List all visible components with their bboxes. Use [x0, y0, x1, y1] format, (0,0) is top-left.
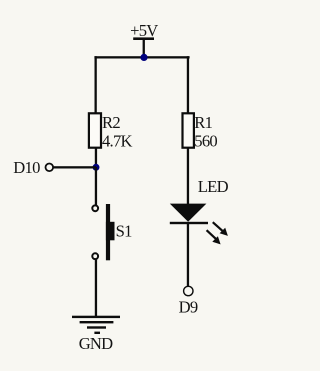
switch S1 bottom terminal: [92, 253, 98, 259]
LED light arrow 1: [212, 221, 228, 236]
svg-text:560: 560: [194, 132, 217, 151]
svg-text:+5V: +5V: [130, 21, 158, 40]
svg-text:GND: GND: [79, 334, 113, 353]
terminal circle D9: [184, 286, 193, 295]
svg-text:4.7K: 4.7K: [102, 132, 132, 151]
terminal circle D10: [46, 164, 54, 172]
wire +5V stem: [143, 40, 145, 58]
wire R1 to LED: [187, 148, 189, 205]
ground symbol: [72, 316, 120, 334]
wire LED to terminal D9: [187, 224, 189, 286]
wire switch to ground: [95, 260, 97, 317]
svg-text:R2: R2: [102, 113, 120, 132]
switch S1 actuator bar: [106, 204, 110, 260]
wire right rail down to R1: [187, 56, 189, 113]
resistor R1 body: [183, 113, 194, 147]
svg-text:S1: S1: [116, 222, 132, 241]
wire node down to switch: [95, 167, 97, 205]
svg-text:R1: R1: [194, 113, 212, 132]
switch S1 top terminal: [92, 205, 98, 211]
wire left rail down to R2: [95, 56, 97, 113]
LED light arrow 2: [206, 229, 221, 244]
junction top rail: [140, 54, 147, 61]
LED anode triangle: [170, 204, 207, 222]
junction node D10: [93, 164, 100, 171]
switch S1 button: [106, 222, 115, 241]
power symbol +5V bar: [133, 37, 154, 40]
svg-text:LED: LED: [198, 177, 229, 196]
svg-text:D9: D9: [179, 298, 198, 317]
wire top rail horizontal: [94, 56, 189, 58]
svg-text:D10: D10: [13, 158, 40, 177]
wire node to terminal D10: [53, 166, 96, 168]
resistor R2 body: [89, 113, 101, 147]
wire R2 to node: [95, 148, 97, 168]
LED cathode bar: [170, 222, 208, 224]
